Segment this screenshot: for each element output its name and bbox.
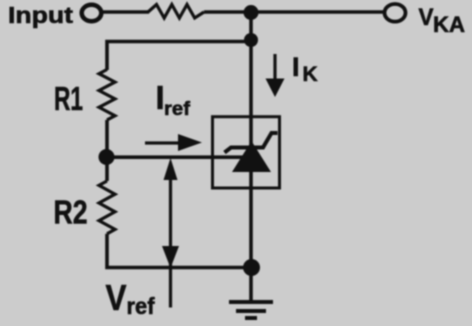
svg-text:V: V (419, 4, 434, 31)
svg-text:I: I (292, 52, 300, 82)
svg-text:KA: KA (433, 12, 465, 37)
svg-text:Input: Input (8, 2, 73, 28)
svg-text:V: V (106, 277, 127, 318)
svg-text:ref: ref (127, 293, 155, 319)
svg-text:R1: R1 (54, 80, 83, 117)
svg-text:R2: R2 (54, 194, 88, 231)
svg-text:K: K (303, 63, 318, 86)
svg-text:ref: ref (164, 98, 191, 120)
